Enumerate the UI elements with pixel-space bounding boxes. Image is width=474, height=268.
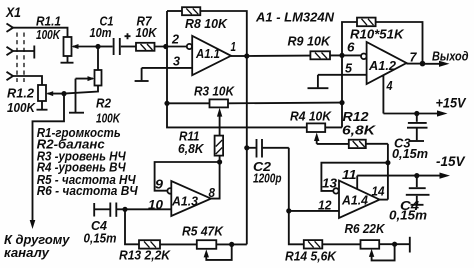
wire C1 to R7 <box>121 46 136 48</box>
wiper arrow R2 <box>76 76 95 81</box>
svg-text:5: 5 <box>345 61 353 76</box>
pin 5 wire <box>318 74 367 76</box>
svg-text:A1.1: A1.1 <box>195 46 220 61</box>
wire C4-node down to R13 <box>125 209 139 244</box>
svg-text:R14 5,6K: R14 5,6K <box>285 249 337 264</box>
svg-text:R6 22K: R6 22K <box>345 221 386 236</box>
op-amp U1 A1.2 <box>361 42 407 84</box>
resistor R2 <box>95 70 102 86</box>
resistor R14 <box>304 240 323 248</box>
feedback box A1.4 <box>321 163 388 191</box>
node pin2 junction <box>163 44 168 49</box>
op-amp U1 A1.4 <box>333 181 379 218</box>
svg-text:2: 2 <box>171 32 180 47</box>
node R3 line <box>164 101 169 106</box>
wire R11 to node <box>219 156 221 162</box>
wire R7 to A1.1 pin2 <box>155 46 187 48</box>
svg-text:-15V: -15V <box>436 154 465 169</box>
main vertical bus x=246.8 <box>246 56 248 244</box>
svg-text:4: 4 <box>386 78 393 93</box>
node A (volume wiper / C1) <box>95 44 100 49</box>
resistor R4 (pot) <box>307 123 342 132</box>
-15V rail arrow <box>357 173 450 179</box>
output node A1.1 <box>231 53 249 58</box>
resistor R13 <box>139 240 160 248</box>
svg-text:R8 10K: R8 10K <box>185 16 229 31</box>
output node A1.2 <box>407 61 426 67</box>
wire <box>13 28 68 37</box>
svg-text:7: 7 <box>410 50 418 65</box>
svg-text:R5 47K: R5 47K <box>182 224 224 239</box>
resistor R12 <box>317 140 388 148</box>
arrowhead other channel <box>30 220 36 229</box>
svg-text:6,8K: 6,8K <box>178 141 205 156</box>
ground bar R6 right <box>409 237 411 253</box>
wiper loop R5 <box>204 244 232 260</box>
node C2 tap <box>244 145 249 150</box>
svg-text:+15V: +15V <box>436 96 467 111</box>
resistor R6 (pot) <box>361 240 410 249</box>
capacitor C4 (left) <box>94 203 125 217</box>
resistor R9 <box>247 51 361 59</box>
node A1.4 feedback <box>385 160 390 165</box>
svg-text:A1.3: A1.3 <box>171 194 199 209</box>
wire <box>13 50 34 52</box>
wire node to A1.3 output <box>211 162 220 199</box>
svg-text:R10*51K: R10*51K <box>350 27 405 42</box>
op-amp U1 A1.3 <box>167 181 211 216</box>
svg-text:Выход: Выход <box>432 49 469 64</box>
output arrow Vyhod <box>423 61 450 67</box>
feedback vertical (R8 left) <box>166 11 168 47</box>
node R6 wiper <box>392 242 397 247</box>
svg-text:К другому: К другому <box>4 233 71 247</box>
resistor R7 <box>136 43 155 51</box>
node R11 bottom <box>217 159 222 164</box>
wire R2 top to node A <box>97 47 99 71</box>
svg-text:R6 - частота ВЧ: R6 - частота ВЧ <box>37 183 139 198</box>
output wire A1.4 <box>380 199 388 201</box>
svg-text:0,15m: 0,15m <box>84 231 117 246</box>
svg-text:X1: X1 <box>5 5 21 20</box>
wiper arrow R1.1 <box>72 44 98 49</box>
resistor R8 <box>167 7 247 56</box>
svg-text:10: 10 <box>148 197 164 212</box>
+15V rail arrow <box>383 110 447 116</box>
svg-text:11: 11 <box>342 167 357 182</box>
svg-text:R3 10K: R3 10K <box>194 84 235 99</box>
wiper arrow R1.2 <box>46 91 64 96</box>
connector X1 pin 1 <box>7 24 14 32</box>
resistor R5 (pot) <box>197 240 247 249</box>
resistor R11 <box>215 136 224 156</box>
wiper arrow R3 <box>217 108 222 136</box>
svg-text:13: 13 <box>322 176 338 191</box>
node pin 12 tap <box>286 208 291 213</box>
wiper arrow R4 <box>314 133 319 144</box>
svg-text:1: 1 <box>231 40 237 54</box>
wire node B to R2 bottom <box>64 86 98 94</box>
ground under R1.2 <box>37 101 48 110</box>
svg-text:R9 10K: R9 10K <box>288 34 332 49</box>
node +15V <box>414 111 419 116</box>
svg-text:6,8K: 6,8K <box>342 123 377 138</box>
svg-text:10K: 10K <box>136 25 158 40</box>
node R5 wiper <box>229 242 234 247</box>
svg-text:100K: 100K <box>36 27 61 42</box>
feedback loop R10 <box>342 22 423 64</box>
connector X1 pin 3 <box>7 72 14 80</box>
svg-text:8: 8 <box>209 185 216 200</box>
svg-text:100K: 100K <box>96 111 121 126</box>
pin 10 wire <box>125 208 171 210</box>
wiper loop R6 <box>369 244 395 260</box>
svg-text:A1.2: A1.2 <box>368 58 397 73</box>
wire to other channel <box>33 94 65 222</box>
capacitor C4 (right) <box>406 176 430 205</box>
pin 4 wire to +15V rail <box>382 75 384 113</box>
wire R14 to R6 <box>322 243 360 245</box>
svg-text:0,15m: 0,15m <box>392 146 428 161</box>
svg-text:A1.4: A1.4 <box>341 193 369 208</box>
wire C2 down <box>289 148 304 245</box>
resistor R1.1 <box>64 37 72 56</box>
connector X1 pin 2 <box>7 47 14 55</box>
resistor R10 <box>357 18 376 27</box>
svg-text:3: 3 <box>173 54 181 69</box>
svg-text:каналу: каналу <box>4 246 50 260</box>
svg-text:R4 10K: R4 10K <box>290 109 332 124</box>
capacitor C2 <box>247 139 289 158</box>
node R3 to pin6 bus <box>339 100 344 105</box>
ground pin 3 <box>135 68 149 81</box>
node B (R1.2 wiper) <box>61 91 66 96</box>
wire down to R4 line <box>167 103 307 127</box>
svg-text:9: 9 <box>155 177 164 192</box>
pin 11 wire to -15V rail <box>356 176 358 190</box>
svg-text:A1 - LM324N: A1 - LM324N <box>255 10 335 25</box>
capacitor C1 <box>114 33 131 55</box>
pin 12 wire <box>289 210 339 212</box>
resistor R1.2 <box>38 85 46 101</box>
wire <box>13 76 42 85</box>
A1.4 output vertical <box>387 144 389 200</box>
wire node A to C1 <box>98 46 113 48</box>
ground pin 5 <box>308 75 329 88</box>
vertical bus pin6 to R4 <box>341 55 343 127</box>
node -15V <box>414 173 419 178</box>
pin 3 wire A1.1 <box>142 67 193 69</box>
wire R13 to R5 <box>160 243 197 245</box>
connector shield dashed lines <box>17 33 24 83</box>
node pin 6 <box>339 53 344 58</box>
ground under R1.1 <box>61 56 74 63</box>
capacitor C3 <box>407 114 428 142</box>
ground under R2 wiper <box>69 79 84 113</box>
svg-text:R2: R2 <box>96 96 112 111</box>
svg-text:R13 2,2K: R13 2,2K <box>119 248 171 263</box>
svg-text:0,15m: 0,15m <box>389 208 427 223</box>
junction vertical down to R3 line <box>166 47 168 104</box>
ground bar (pin 2) <box>33 46 35 59</box>
op-amp U1 A1.1 <box>187 36 231 75</box>
feedback box A1.3 <box>155 162 220 191</box>
svg-text:6: 6 <box>347 40 355 55</box>
node C4 left <box>122 207 127 212</box>
svg-text:1200p: 1200p <box>253 171 282 186</box>
svg-text:14: 14 <box>372 184 386 199</box>
svg-text:10m: 10m <box>90 25 112 40</box>
svg-text:R1.2: R1.2 <box>7 86 35 101</box>
resistor R3 (pot) <box>167 99 342 107</box>
svg-text:100K: 100K <box>7 100 36 115</box>
svg-text:12: 12 <box>318 198 332 213</box>
